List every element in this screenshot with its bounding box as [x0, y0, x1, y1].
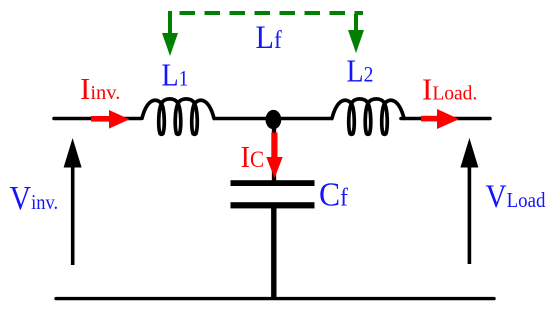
svg-text:VLoad: VLoad [486, 178, 546, 215]
svg-text:Cf: Cf [319, 176, 349, 213]
green arrow to L2 [348, 14, 364, 53]
dashed feedback line Lf [180, 11, 364, 15]
capacitor Cf top plate [231, 180, 315, 186]
arrow VLoad (voltage indicator right) [460, 138, 478, 264]
wire: capacitor to bottom rail [271, 208, 276, 299]
wire: right output segment [401, 117, 490, 121]
wire: middle segment between L1 and L2 [213, 117, 333, 121]
inductor L1 [142, 99, 214, 135]
svg-text:ILoad.: ILoad. [422, 72, 477, 107]
node (junction dot) [266, 110, 282, 129]
svg-text:L1: L1 [162, 58, 189, 93]
arrow Vinv. (voltage indicator left) [64, 138, 82, 265]
svg-text:Vinv.: Vinv. [10, 178, 59, 216]
wire: left input segment [54, 117, 141, 121]
svg-text:IC: IC [241, 140, 265, 174]
svg-text:L2: L2 [347, 54, 374, 89]
inductor L2 [332, 99, 404, 135]
svg-text:Iinv.: Iinv. [80, 71, 120, 106]
wire: bottom rail [56, 297, 494, 300]
arrow ILoad. (current out of L2) [421, 109, 459, 129]
arrow IC (capacitor current) [266, 133, 282, 179]
wire: node to capacitor [272, 120, 276, 182]
capacitor Cf bottom plate [231, 202, 315, 208]
green arrow to L1 [162, 11, 178, 56]
arrow Iinv. (current into L1) [91, 110, 130, 129]
svg-text:Lf: Lf [256, 19, 283, 55]
